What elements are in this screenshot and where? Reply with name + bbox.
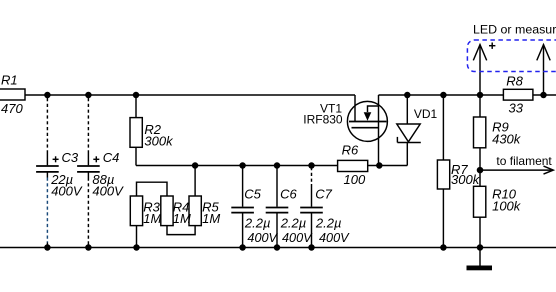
svg-text:1M: 1M xyxy=(202,211,220,226)
VT1 channel line xyxy=(349,121,387,123)
svg-text:to filament: to filament xyxy=(496,154,552,168)
dashed selection box LED xyxy=(467,40,556,72)
wire C5 upper xyxy=(242,166,244,207)
wire gate rail xyxy=(136,165,407,167)
capacitor C4 xyxy=(77,165,100,167)
VT1 source/gate vertical xyxy=(378,95,380,166)
svg-text:2.2µ: 2.2µ xyxy=(280,216,307,231)
wire C7 upper part dashed xyxy=(311,167,313,184)
VT1 gate bar xyxy=(352,127,379,129)
capacitor C6 xyxy=(266,207,289,209)
resistor R7 xyxy=(442,95,444,160)
svg-text:C3: C3 xyxy=(62,150,79,165)
resistor R3 xyxy=(130,196,142,226)
wire R3 bottom xyxy=(136,226,138,248)
node junction bottom C4 xyxy=(85,244,92,251)
svg-text:400V: 400V xyxy=(247,231,278,245)
node junction gate rail R5 xyxy=(192,162,199,169)
wire to-filament arrow xyxy=(480,169,553,171)
VT1 drain lead xyxy=(354,95,356,122)
resistor R8 xyxy=(503,89,533,100)
resistor R5 xyxy=(189,196,201,226)
svg-text:R6: R6 xyxy=(342,142,359,157)
svg-text:IRF830: IRF830 xyxy=(303,112,343,126)
wire R4-R3 top bridge xyxy=(137,182,168,196)
node junction bottom C3 xyxy=(44,244,51,251)
node junction bottom ground xyxy=(477,244,484,251)
transistor VT1 body circle xyxy=(347,101,387,141)
wire C7 lower xyxy=(311,213,313,247)
svg-text:400V: 400V xyxy=(319,231,350,245)
svg-text:400V: 400V xyxy=(51,183,83,198)
node junction top C3 xyxy=(44,92,51,99)
node junction gate rail C6 xyxy=(274,162,281,169)
wire R5-R4 bottom bridge xyxy=(167,226,195,235)
svg-text:300k: 300k xyxy=(144,133,174,148)
wire C6 lower xyxy=(276,213,278,247)
wire top rail right segment xyxy=(379,94,556,96)
ground xyxy=(479,248,481,266)
svg-text:VD1: VD1 xyxy=(414,107,438,121)
wire R5 top xyxy=(194,166,196,197)
capacitor C7 xyxy=(300,207,323,209)
diode VD1 xyxy=(406,95,408,124)
node junction bottom C6 xyxy=(274,244,281,251)
capacitor C3 xyxy=(36,165,59,167)
node junction top VD1 xyxy=(404,92,411,99)
node junction top R2 xyxy=(133,92,140,99)
svg-text:1M: 1M xyxy=(173,211,191,226)
wire C6 upper xyxy=(276,166,278,207)
svg-text:C6: C6 xyxy=(280,187,297,202)
wire C4 upper dashed xyxy=(87,98,89,151)
node junction gate rail R6/VD1 xyxy=(376,162,383,169)
svg-text:430k: 430k xyxy=(492,132,522,147)
wire C3 lower blue dashed xyxy=(46,173,48,178)
wire C5 lower xyxy=(242,213,244,247)
VT1 substrate arrow link xyxy=(368,106,379,112)
capacitor C5 xyxy=(231,207,254,209)
node junction top R9 / LED arrow1 xyxy=(477,92,484,99)
wire C4 lower dashed xyxy=(87,173,89,178)
node junction bottom R3 xyxy=(133,244,140,251)
svg-text:400V: 400V xyxy=(282,231,313,245)
node junction gate rail C7 xyxy=(308,162,315,169)
node junction bottom C7 xyxy=(308,244,315,251)
resistor R10 xyxy=(479,170,481,186)
node junction top R7 xyxy=(440,92,447,99)
svg-text:1M: 1M xyxy=(143,211,161,226)
svg-text:470: 470 xyxy=(1,101,23,116)
svg-text:C4: C4 xyxy=(103,150,120,165)
resistor R1 xyxy=(0,89,25,100)
resistor R9 xyxy=(479,95,481,117)
node junction bottom R7 xyxy=(440,244,447,251)
node junction bottom C5 xyxy=(239,244,246,251)
svg-text:C5: C5 xyxy=(244,187,261,202)
svg-text:LED or measure: LED or measure xyxy=(473,23,556,37)
resistor R2 xyxy=(135,95,137,118)
plus sign C3 xyxy=(53,158,59,160)
svg-text:C7: C7 xyxy=(315,187,332,202)
plus sign LED box xyxy=(489,45,495,47)
node junction gate rail C5 xyxy=(239,162,246,169)
LED measure arrow 2 xyxy=(543,45,545,95)
VT1 substrate arrowhead xyxy=(364,112,372,121)
wire top rail left segment xyxy=(0,94,355,96)
wire C3 upper dashed xyxy=(46,98,48,151)
node junction top C4 xyxy=(85,92,92,99)
LED measure arrow 1 xyxy=(479,45,481,95)
svg-text:R8: R8 xyxy=(506,74,523,89)
svg-text:2.2µ: 2.2µ xyxy=(244,216,271,231)
plus sign C4 xyxy=(93,158,99,160)
svg-text:R1: R1 xyxy=(1,73,18,88)
svg-text:100k: 100k xyxy=(492,199,522,214)
svg-text:400V: 400V xyxy=(92,183,124,198)
svg-text:33: 33 xyxy=(509,100,524,115)
svg-text:100: 100 xyxy=(344,172,366,187)
node junction top LED arrow2 xyxy=(540,92,547,99)
node junction filament xyxy=(477,167,484,174)
resistor R4 xyxy=(161,196,173,226)
svg-text:2.2µ: 2.2µ xyxy=(315,216,342,231)
svg-text:300k: 300k xyxy=(451,172,481,187)
resistor R6 xyxy=(338,160,368,171)
wire bottom rail xyxy=(0,247,556,249)
